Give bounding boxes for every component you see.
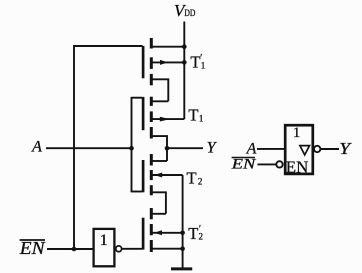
svg-text:2: 2 — [199, 232, 204, 242]
svg-text:A: A — [31, 139, 42, 156]
svg-text:Y: Y — [207, 139, 218, 156]
svg-text:2: 2 — [198, 177, 203, 187]
svg-text:T: T — [188, 106, 198, 125]
svg-text:1: 1 — [199, 113, 204, 123]
svg-text:1: 1 — [201, 61, 206, 71]
svg-text:T: T — [187, 168, 197, 187]
svg-text:EN: EN — [19, 238, 46, 258]
svg-text:T: T — [190, 52, 200, 71]
svg-text:Y: Y — [339, 139, 352, 158]
svg-text:EN: EN — [231, 157, 257, 173]
svg-text:T: T — [188, 224, 198, 243]
svg-text:A: A — [246, 141, 257, 158]
svg-text:DD: DD — [184, 8, 195, 18]
svg-text:EN: EN — [286, 158, 309, 177]
svg-text:1: 1 — [293, 125, 301, 141]
svg-text:1: 1 — [100, 232, 108, 249]
